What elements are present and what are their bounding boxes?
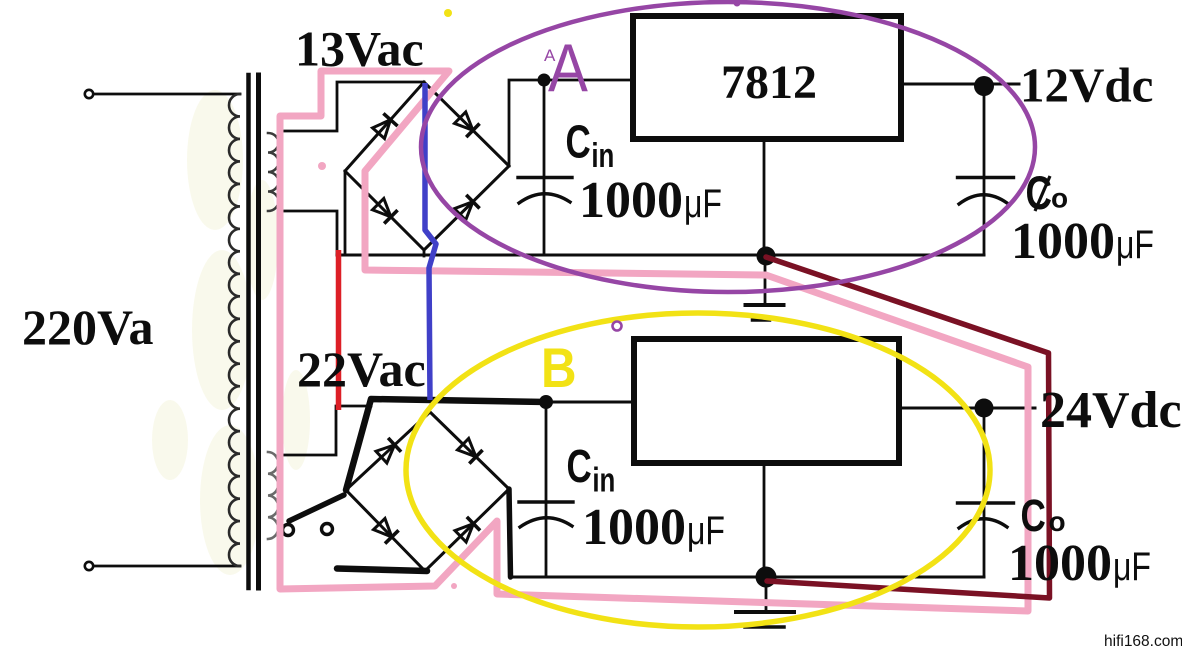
svg-text:B: B	[541, 337, 577, 400]
svg-text:1000: 1000	[582, 499, 686, 556]
svg-text:o: o	[1049, 506, 1066, 537]
svg-text:C: C	[566, 116, 591, 168]
svg-text:in: in	[592, 462, 615, 499]
svg-text:12Vdc: 12Vdc	[1020, 58, 1153, 113]
svg-text:μF: μF	[1113, 544, 1151, 589]
svg-text:220Va: 220Va	[22, 299, 154, 355]
svg-text:C: C	[1021, 490, 1046, 541]
svg-text:1000: 1000	[1011, 213, 1115, 270]
svg-text:hifi168.com: hifi168.com	[1104, 633, 1182, 650]
svg-text:μF: μF	[684, 181, 722, 226]
svg-text:1000: 1000	[579, 172, 683, 229]
svg-text:24Vdc: 24Vdc	[1040, 382, 1182, 439]
svg-text:in: in	[591, 138, 614, 175]
svg-text:A: A	[544, 46, 556, 65]
svg-text:A: A	[548, 29, 588, 105]
svg-text:13Vac: 13Vac	[295, 21, 424, 77]
svg-text:7812: 7812	[721, 56, 817, 109]
svg-text:1000: 1000	[1008, 535, 1112, 592]
svg-text:22Vac: 22Vac	[297, 341, 426, 397]
svg-text:C: C	[567, 440, 592, 492]
svg-text:μF: μF	[1116, 222, 1154, 267]
svg-text:C: C	[1026, 167, 1052, 219]
svg-text:o: o	[1051, 183, 1068, 214]
svg-text:μF: μF	[687, 508, 725, 553]
